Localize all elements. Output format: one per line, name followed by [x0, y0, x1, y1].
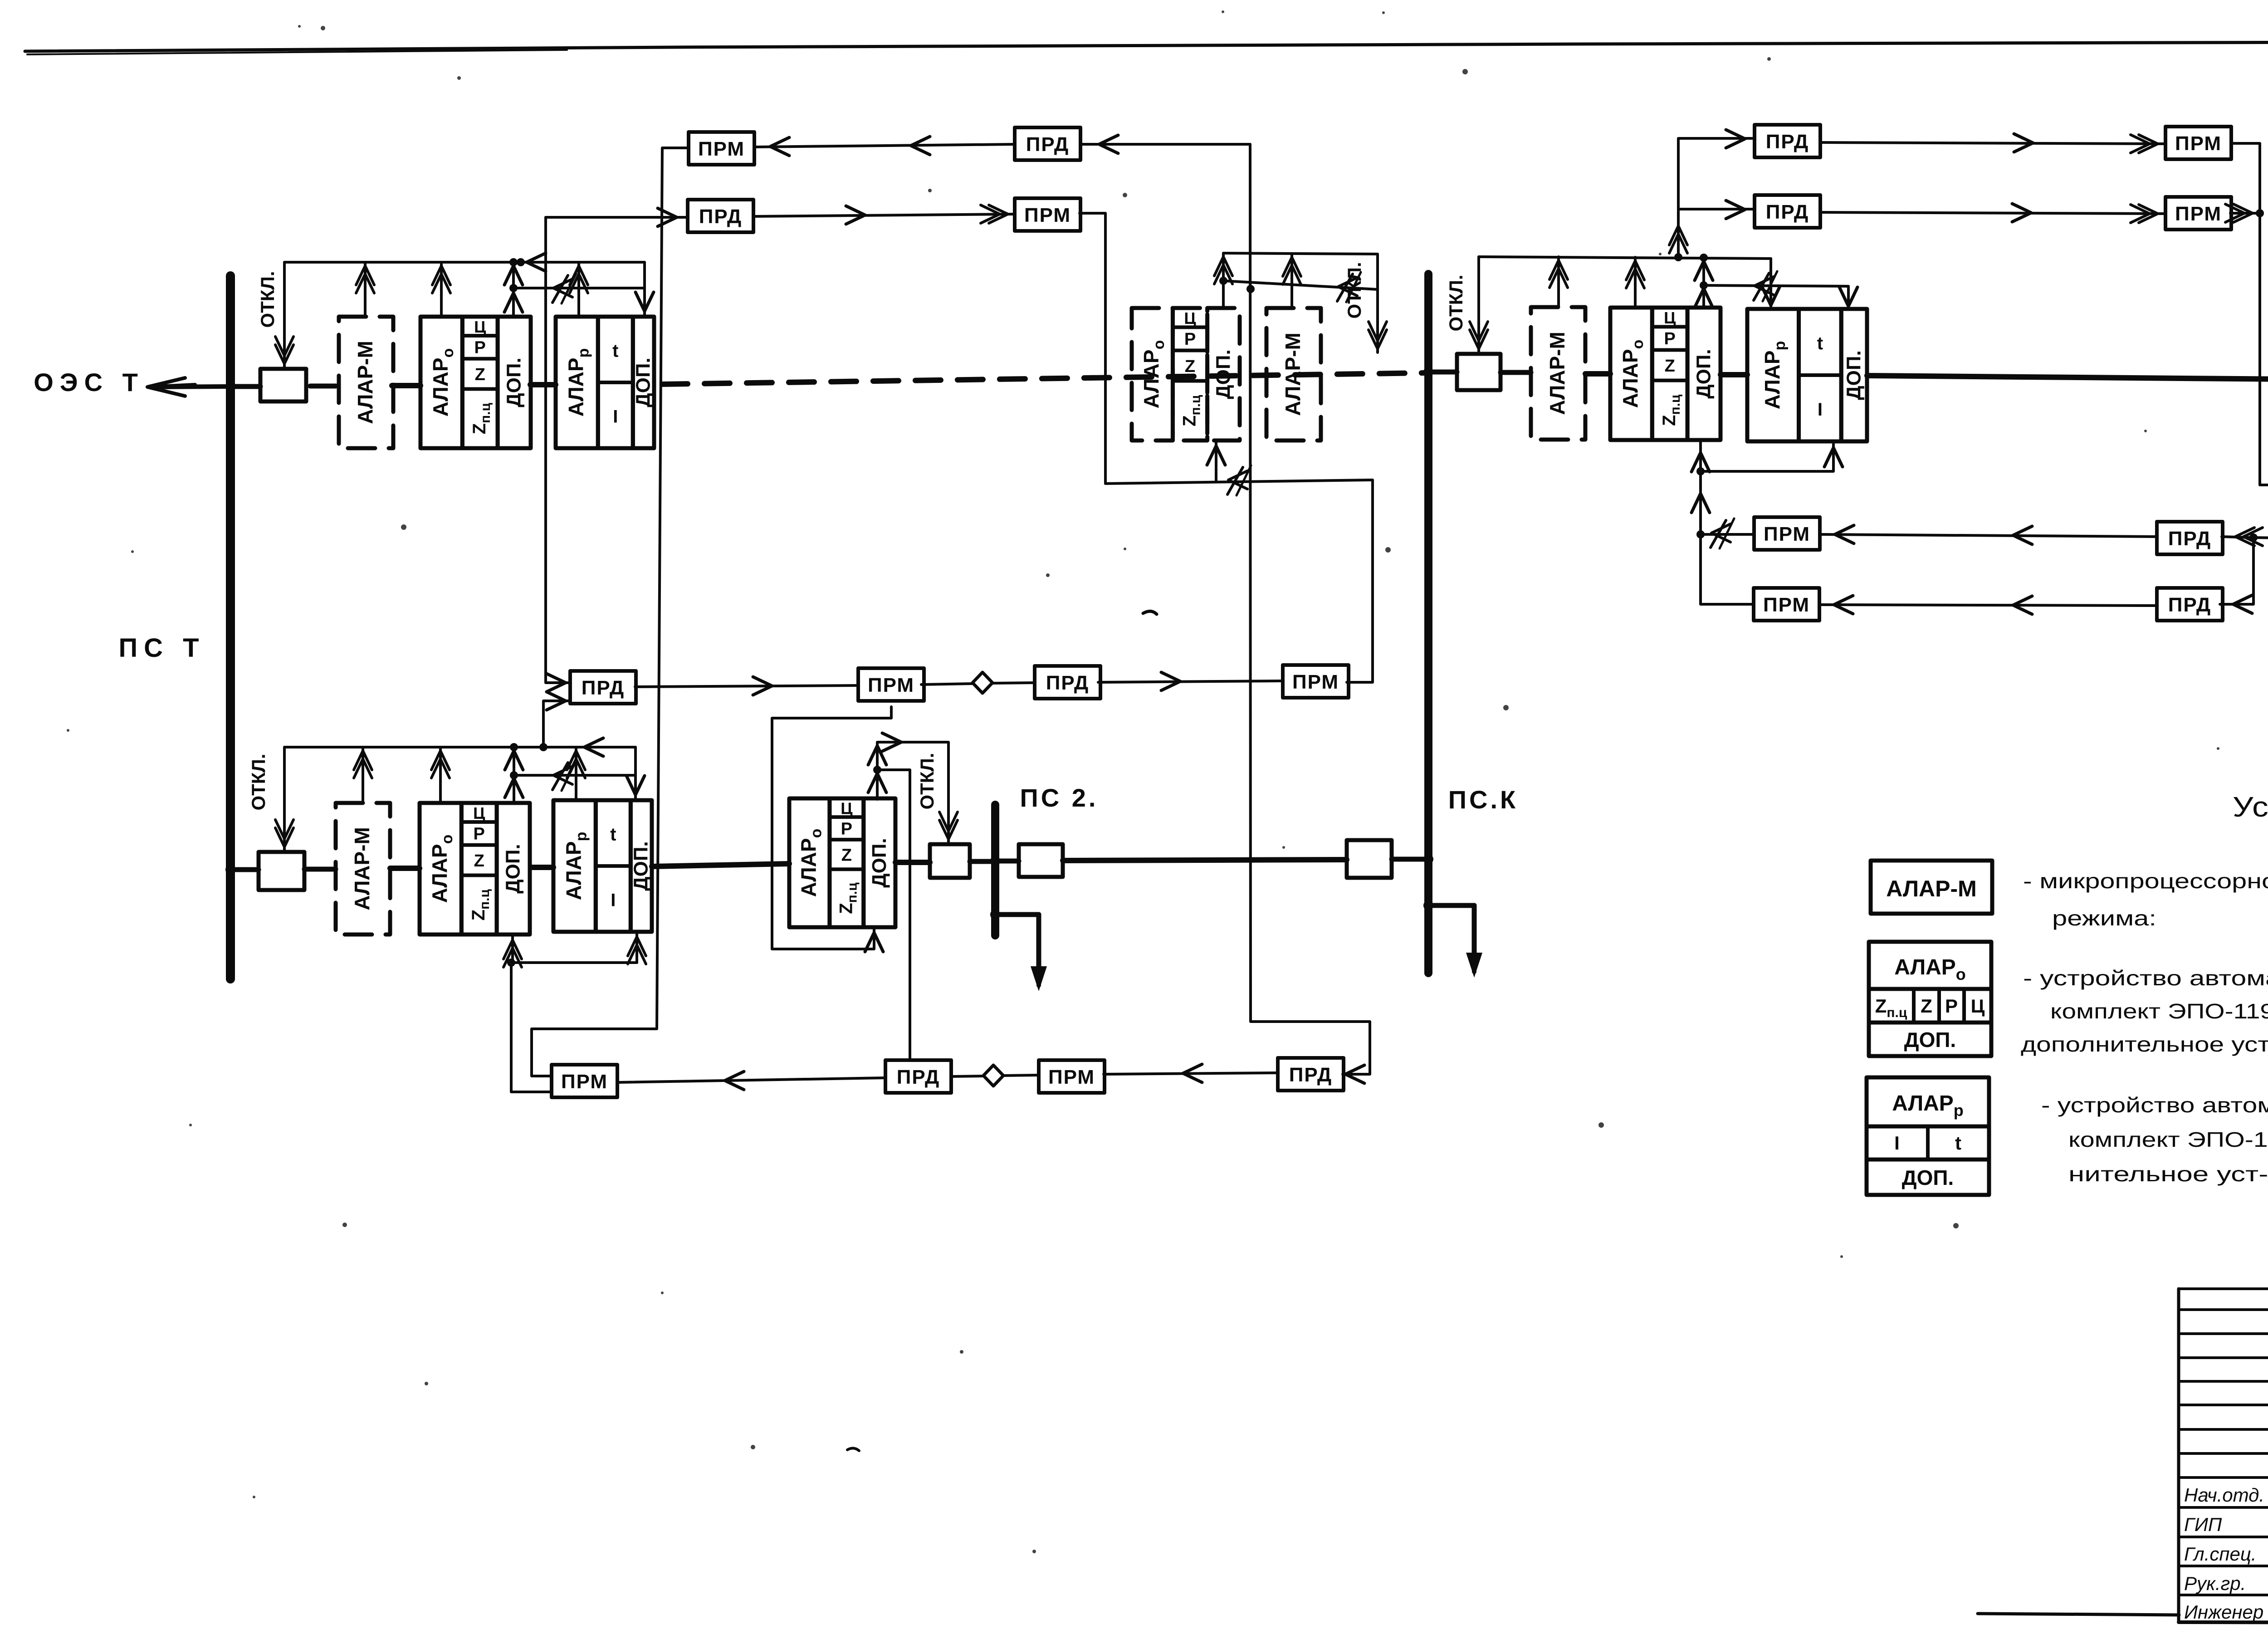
svg-text:Zп.ц: Zп.ц — [1180, 395, 1203, 426]
svg-text:Условные обозначения: Условные обозначения — [2233, 792, 2268, 823]
wire откл second bus C4 — [1704, 285, 1848, 286]
wire channel 5 ПРД to ПРМ (westward) — [1820, 534, 2157, 537]
wire АЛАРр output riser C1 — [577, 262, 580, 317]
transmitter ПРД (ПС Т lower, ch.A) — [570, 671, 636, 704]
device АЛАРо (ПС Т lower) — [420, 803, 530, 934]
scan speckles — [321, 26, 325, 30]
transmitter ПРД (ПС 4, ch.6) — [2157, 588, 2223, 621]
wire under-cluster link C2 — [511, 961, 637, 964]
svg-text:Zп.ц: Zп.ц — [469, 889, 492, 921]
transmitter ПРД (ПС 2, ch.B) — [885, 1060, 951, 1093]
wire АЛАР-М output riser C2 — [362, 747, 364, 803]
svg-text:Гл.спец.: Гл.спец. — [2184, 1543, 2257, 1565]
svg-text:ПС.К: ПС.К — [1448, 785, 1518, 814]
svg-text:АЛАРо: АЛАРо — [429, 348, 457, 417]
wire stub АЛАР-М to АЛАРо (ПС К east) — [1585, 371, 1610, 377]
receiver ПРМ (ПС К east, ch.6) — [1754, 588, 1819, 621]
device АЛАРо (ПС 2) — [789, 798, 895, 927]
svg-text:t: t — [610, 825, 616, 845]
svg-text:ДОП.: ДОП. — [632, 357, 655, 407]
svg-text:ГИП: ГИП — [2184, 1514, 2222, 1535]
wire ПРМ ch.B output to C2 under-wire — [511, 963, 552, 1092]
svg-text:I: I — [613, 407, 618, 427]
svg-text:АЛАР-М: АЛАР-М — [1281, 333, 1305, 416]
wire stub АЛАРо to АЛАРр (lower) — [531, 865, 553, 870]
wire откл bus C4 — [1479, 257, 1771, 259]
svg-text:дополнительное уст-во ликвида: дополнительное уст-во ликвидации неполно… — [2021, 1032, 2268, 1056]
svg-text:t: t — [612, 341, 618, 361]
wire lower line: ПС Т bus to breaker — [225, 865, 235, 875]
breaker (откл.) ПС Т lower — [259, 852, 304, 890]
svg-text:комплект ЭПО-1196/1-90с пуско: комплект ЭПО-1196/1-90с пуском по току, … — [2068, 1127, 2268, 1151]
legend symbol АЛАРо — [1869, 942, 1991, 989]
receiver ПРМ (ПС К west, ch.2) — [1015, 198, 1080, 231]
wire откл second bus C1 — [513, 287, 645, 289]
svg-text:ПРД: ПРД — [2168, 594, 2212, 616]
device АЛАРр (ПС Т lower) — [553, 800, 652, 932]
svg-text:АЛАРр: АЛАРр — [562, 832, 590, 900]
svg-text:Z: Z — [474, 851, 484, 871]
device АЛАР-М (ПС К east) — [1531, 307, 1585, 440]
svg-text:комплект ЭПО-1195/1-90с пуско: комплект ЭПО-1195/1-90с пуском по сопрот… — [2050, 998, 2268, 1023]
wire АЛАРо riser C4 — [1634, 257, 1637, 308]
wire channel 4 ПРД to ПРМ (eastward) — [1820, 212, 2165, 214]
wire channel 2 ПРД to ПРМ (eastward) — [753, 214, 1015, 216]
device АЛАРо (ПС К west, dashed) — [1132, 308, 1240, 440]
transmitter ПРД (ПС 4, ch.5) — [2157, 522, 2223, 554]
svg-text:t: t — [1817, 333, 1823, 353]
svg-text:- устройство автоматической: - устройство автоматической ликвидации а… — [2023, 966, 2268, 990]
svg-text:Ц: Ц — [841, 799, 853, 817]
svg-text:ПРМ: ПРМ — [1763, 594, 1810, 616]
legend symbol АЛАРр — [1867, 1077, 1989, 1126]
svg-text:Zп.ц: Zп.ц — [836, 882, 860, 914]
wire откл bus C1 west arrow — [527, 253, 546, 271]
transmitter ПРД (ПС К east, ch.4) — [1755, 195, 1820, 228]
wire откл bus C1 east riser to АЛАРр-ДОП — [643, 262, 646, 315]
svg-text:Р: Р — [1664, 329, 1676, 348]
device АЛАР-М (ПС Т lower) — [336, 803, 390, 934]
wire ПРД ch.1 feed from riser R1 — [1080, 143, 1250, 146]
feeder branch at ПС 2 (down arrow) — [990, 910, 1000, 920]
wire АЛАРо-ДОП output riser C1 — [512, 262, 515, 315]
wire откл bus C2 west arrow — [584, 738, 603, 756]
wire breaker riser C3L — [1376, 254, 1379, 352]
wire upper line stub АЛАР-М to АЛАРо — [392, 383, 420, 388]
breaker (откл.) ПС 2 west — [930, 844, 970, 878]
svg-text:Нач.отд.: Нач.отд. — [2184, 1484, 2264, 1506]
repeater diamond ch.B — [983, 1065, 1003, 1086]
svg-text:Ц: Ц — [473, 804, 485, 822]
wire stub АЛАР-М to АЛАРо (lower) — [390, 866, 420, 871]
wire АЛАРо-ДОП riser C4 — [1702, 258, 1705, 308]
wire откл bus C4 east riser to АЛАРр — [1769, 259, 1772, 309]
svg-text:АЛАРо: АЛАРо — [797, 829, 825, 897]
svg-text:нительное уст-во ликвидации: нительное уст-во ликвидации неполнофазно… — [2068, 1162, 2268, 1186]
wire breaker to ПС К bus (lower) — [1392, 857, 1425, 862]
svg-text:Z: Z — [1185, 357, 1195, 376]
svg-text:ПРД: ПРД — [582, 677, 625, 699]
wire channel 1 ПРД to ПРМ (westward) — [754, 144, 1015, 147]
scan smudge marks — [1143, 611, 1157, 614]
svg-text:Р: Р — [1945, 995, 1958, 1017]
wire откл bus C2 east riser to АЛАРр-ДОП — [634, 747, 637, 798]
svg-text:ДОП.: ДОП. — [630, 841, 652, 890]
wire ПРМ ch.2 output riser to under-wire — [1080, 213, 1105, 484]
svg-text:ДОП.: ДОП. — [503, 357, 525, 407]
transmitter ПРД (ПС 2 east, ch.A) — [1035, 666, 1100, 699]
device АЛАРо (ПС К east) — [1610, 308, 1721, 440]
svg-text:ПРМ: ПРМ — [868, 674, 914, 696]
svg-text:ПРД: ПРД — [1766, 201, 1809, 223]
wire откл second bus C2 — [514, 774, 635, 777]
sheet bottom-left line — [1978, 1614, 2179, 1615]
wire АЛАРо-ДОП riser C3L — [1222, 253, 1225, 308]
wire ПРМ ch.3/4 outputs riser down — [2233, 143, 2260, 485]
wire dash piece after breaker — [310, 384, 336, 389]
svg-text:ПРД: ПРД — [699, 205, 743, 228]
svg-text:ОТКЛ.: ОТКЛ. — [1445, 274, 1466, 331]
wire откл link ПС 2 — [877, 742, 948, 843]
svg-text:Z: Z — [841, 846, 852, 865]
svg-text:АЛАРр: АЛАРр — [1760, 341, 1789, 410]
svg-text:Zп.ц: Zп.ц — [1659, 394, 1683, 426]
wire riser R1 down to ПРД row B — [1250, 144, 1370, 1074]
wire откл bus C3L — [1223, 253, 1378, 254]
breaker (откл.) ПС К lower — [1347, 840, 1392, 878]
bus ПС 2 — [991, 805, 999, 935]
wire channel 6 ПРД to ПРМ (westward) — [1819, 605, 2157, 606]
svg-text:ДОП.: ДОП. — [1693, 349, 1715, 398]
receiver ПРМ (ПС 2 east, ch.B) — [1039, 1060, 1105, 1093]
svg-text:АЛАРо: АЛАРо — [1618, 340, 1647, 408]
svg-text:АЛАРо: АЛАРо — [428, 835, 456, 903]
svg-text:ОТКЛ.: ОТКЛ. — [248, 753, 269, 810]
svg-text:ДОП.: ДОП. — [1843, 350, 1865, 400]
svg-text:ПС Т: ПС Т — [118, 633, 205, 663]
svg-text:ПРМ: ПРМ — [1764, 523, 1810, 545]
receiver ПРМ (ПС Т lower, ch.B) — [552, 1065, 617, 1097]
svg-text:АЛАРо: АЛАРо — [1894, 955, 1966, 983]
svg-text:ПРМ: ПРМ — [698, 138, 745, 160]
wire breaker to ПС 2 bus — [970, 859, 992, 864]
wire lower line ПС 2 to ПС К — [1063, 860, 1347, 861]
transmitter ПРД (ПС Т upper, ch.2) — [688, 200, 753, 232]
wire breaker riser C4 — [1477, 257, 1480, 352]
wire АЛАРо output riser C1 — [440, 262, 443, 317]
svg-text:ПС 2.: ПС 2. — [1020, 783, 1099, 812]
wire АЛАР-М output riser C1 — [364, 262, 367, 317]
wire breaker to АЛАР-М (ПС К east) — [1501, 370, 1531, 375]
svg-text:ОТКЛ.: ОТКЛ. — [257, 271, 278, 328]
wire откл bus C2 (ПС Т lower) — [284, 746, 635, 749]
svg-text:Zп.ц: Zп.ц — [1875, 995, 1907, 1020]
svg-text:I: I — [1894, 1132, 1900, 1154]
svg-text:ДОП.: ДОП. — [502, 844, 524, 893]
wire откл second bus C3L — [1223, 281, 1378, 289]
svg-text:АЛАР-М: АЛАР-М — [350, 827, 374, 910]
breaker (откл.) ПС Т upper — [260, 369, 306, 401]
svg-text:режима:: режима: — [2052, 906, 2156, 930]
svg-text:ПРД: ПРД — [2168, 528, 2212, 550]
feeder branch at ПС К (down arrow) — [1423, 900, 1433, 910]
wire ПС 2 feed to ПРД row B — [877, 770, 910, 1060]
svg-text:Р: Р — [841, 819, 852, 838]
receiver ПРМ (ПС 4, ch.4) — [2165, 197, 2231, 230]
svg-text:Ц: Ц — [474, 318, 486, 336]
svg-text:Ц: Ц — [1971, 995, 1985, 1017]
wire breaker to АЛАР-М (lower) — [304, 867, 336, 872]
svg-text:ПРД: ПРД — [1766, 131, 1809, 153]
device АЛАР-М (ПС К west) — [1266, 308, 1321, 440]
wire feed for ПРД ch.5/6 from ПС 4 откл — [2220, 291, 2268, 604]
svg-text:Р: Р — [474, 338, 486, 357]
wire under-cluster link C4 to АЛАРр-ДОП bottom — [1701, 444, 1833, 471]
wire to ОЭС Т with west arrow — [152, 386, 226, 387]
svg-text:Ц: Ц — [1664, 308, 1676, 327]
svg-text:АЛАРо: АЛАРо — [1139, 340, 1168, 409]
legend symbol АЛАР-М — [1871, 861, 1992, 914]
svg-text:I: I — [1818, 400, 1823, 420]
wire stub АЛАРо to АЛАРр (ПС К east) — [1721, 372, 1747, 377]
wire ПРМ ch.1 output west riser down to ПРМ row B — [532, 148, 689, 1076]
svg-text:ПРМ: ПРМ — [1292, 671, 1339, 693]
svg-text:АЛАР-М: АЛАР-М — [1886, 876, 1977, 901]
wire АЛАРо-ДОП output riser C2 — [513, 747, 515, 801]
svg-text:ОТКЛ.: ОТКЛ. — [916, 753, 938, 809]
device АЛАРр (ПС Т upper) — [556, 317, 655, 448]
svg-text:Рук.гр.: Рук.гр. — [2184, 1573, 2246, 1594]
svg-text:ДОП.: ДОП. — [1212, 349, 1234, 399]
wire ПС 2 bus to east breaker — [999, 859, 1019, 864]
wire breaker riser C1 — [283, 262, 286, 367]
wire C3L ДОП bottom riser from lower link — [1215, 442, 1217, 482]
svg-text:ДОП.: ДОП. — [868, 838, 890, 887]
svg-text:ДОП.: ДОП. — [1904, 1028, 1956, 1052]
device АЛАРо (ПС Т upper) — [420, 317, 531, 448]
title block grid — [2177, 1289, 2180, 1622]
receiver ПРМ (ПС 4, ch.3) — [2165, 127, 2231, 159]
wire upper line ПС К bus east stub — [1432, 370, 1457, 375]
svg-text:Zп.ц: Zп.ц — [469, 403, 493, 435]
svg-text:ПРД: ПРД — [1046, 672, 1090, 694]
wire АЛАРо output riser C2 — [439, 747, 442, 803]
sheet top border line — [25, 39, 2268, 51]
wire 500kV line ПС К to ПС 4 — [1867, 376, 2268, 379]
wire channel 3 ПРД to ПРМ (eastward) — [1820, 142, 2165, 144]
svg-text:АЛАРр: АЛАРр — [1892, 1091, 1964, 1120]
device АЛАР-М (ПС Т upper) — [339, 317, 393, 448]
repeater diamond ch.A — [973, 672, 992, 693]
wire channel A segments (eastward) — [635, 685, 858, 687]
wire upper line stub АЛАРо to АЛАРр — [530, 382, 556, 387]
transmitter ПРД (ПС К east, ch.3) — [1755, 125, 1820, 157]
svg-text:ПРМ: ПРМ — [2175, 132, 2222, 155]
device АЛАРр (ПС К east) — [1747, 309, 1867, 441]
wire ПРМ ch.5/6 output riser to C4 ДОП bottoms — [1701, 533, 1754, 536]
svg-text:ПРМ: ПРМ — [1048, 1066, 1095, 1088]
svg-text:ДОП.: ДОП. — [1902, 1166, 1954, 1189]
wire АЛАР-М riser C3L — [1290, 254, 1293, 308]
wire breaker riser C2 — [283, 747, 286, 851]
svg-text:- устройство автоматической: - устройство автоматической ликвидации а… — [2041, 1093, 2268, 1117]
breaker (откл.) ПС 2 east — [1019, 844, 1063, 877]
svg-text:Р: Р — [1184, 330, 1196, 349]
svg-text:I: I — [611, 890, 616, 910]
transmitter ПРД (ПС К west, ch.1) — [1015, 127, 1080, 160]
wire upper line: ПС Т bus to breaker — [225, 382, 235, 391]
svg-text:Z: Z — [1665, 357, 1675, 376]
wire ПРД ch.2 feed riser (from откл bus) — [546, 217, 570, 683]
svg-text:ПРД: ПРД — [897, 1066, 940, 1088]
wire откл bus C1 (ПС Т upper) — [284, 261, 645, 264]
svg-text:ПРМ: ПРМ — [1024, 204, 1071, 226]
svg-text:ПРМ: ПРМ — [2175, 203, 2222, 225]
wire АЛАРо to breaker (ПС 2) — [895, 860, 930, 865]
svg-text:Z: Z — [475, 365, 485, 384]
wire lower line ПС Т to ПС 2 — [652, 864, 789, 866]
bus ПС К — [1424, 274, 1432, 973]
svg-text:ПРД: ПРД — [1026, 133, 1070, 156]
svg-text:Р: Р — [474, 825, 485, 844]
wire under-cluster link ПС 4 — [2260, 444, 2268, 485]
svg-text:Ц: Ц — [1184, 309, 1196, 328]
wire АЛАРр output riser C2 — [575, 747, 577, 800]
svg-text:t: t — [1955, 1132, 1961, 1154]
svg-text:ОЭС Т: ОЭС Т — [34, 368, 144, 396]
receiver ПРМ (ПС К, ch.A) — [1283, 665, 1349, 698]
breaker (откл.) ПС К east — [1457, 354, 1501, 390]
wire feed riser for ПРД ch.3/4 (from откл bus C4) — [1678, 138, 1755, 257]
svg-text:ПРМ: ПРМ — [561, 1071, 608, 1093]
bus ПС Т — [226, 276, 235, 979]
transmitter ПРД (ПС К, ch.B) — [1278, 1058, 1344, 1091]
wire АЛАР-М riser C4 — [1557, 257, 1560, 307]
wire ПРМ ch.A output to ПС 2 ДОП (under path) — [772, 707, 891, 949]
svg-text:АЛАР-М: АЛАР-М — [1545, 332, 1569, 415]
svg-text:Z: Z — [1921, 995, 1932, 1017]
svg-text:- микропроцессорное устройство: - микропроцессорное устройство автоматич… — [2023, 869, 2268, 893]
receiver ПРМ (ПС К east, ch.5) — [1754, 517, 1820, 550]
svg-text:ПРД: ПРД — [1289, 1064, 1333, 1086]
wire second bus C4 riser to АЛАРр-ДОП — [1847, 286, 1850, 309]
wire channel B segments (westward) — [617, 1078, 885, 1082]
receiver ПРМ (ПС 2, ch.A) — [858, 668, 924, 701]
svg-text:Инженер: Инженер — [2184, 1601, 2263, 1623]
wire under-cluster link C3L — [1105, 480, 1373, 682]
wire upper line dashed ПС Т to ПС К — [662, 373, 1425, 384]
svg-text:АЛАРр: АЛАРр — [564, 348, 592, 417]
receiver ПРМ (ПС Т upper, ch.1) — [689, 132, 754, 165]
svg-text:АЛАР-М: АЛАР-М — [353, 341, 377, 424]
